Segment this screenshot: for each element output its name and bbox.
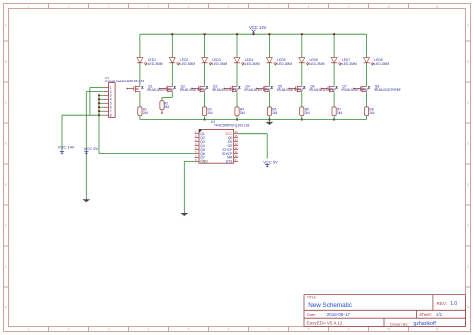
svg-text:Q5: Q5 <box>200 148 205 152</box>
svg-text:LED-3MM: LED-3MM <box>342 62 357 66</box>
svg-text:LED-3MM: LED-3MM <box>245 62 260 66</box>
svg-text:2: 2 <box>110 90 112 94</box>
svg-text:1/1: 1/1 <box>436 312 443 317</box>
svg-text:6: 6 <box>110 106 112 110</box>
svg-text:7: 7 <box>110 110 112 114</box>
svg-text:1.0: 1.0 <box>450 301 457 307</box>
svg-text:Q7S: Q7S <box>226 160 234 164</box>
svg-text:MR: MR <box>227 156 233 160</box>
svg-text:Female headerHDR1X8-2.54: Female headerHDR1X8-2.54 <box>105 79 144 83</box>
svg-text:74HC595PW-Q100,118: 74HC595PW-Q100,118 <box>214 123 250 127</box>
svg-text:2k4: 2k4 <box>164 105 169 109</box>
svg-text:Drawn By:: Drawn By: <box>390 321 408 326</box>
svg-text:VCC 5V: VCC 5V <box>263 159 278 164</box>
svg-text:Q1: Q1 <box>200 132 205 136</box>
svg-text:SH/CP: SH/CP <box>222 152 233 156</box>
svg-text:Q3: Q3 <box>200 140 205 144</box>
svg-text:2k4: 2k4 <box>272 111 277 115</box>
svg-text:LED-3MM: LED-3MM <box>180 62 195 66</box>
svg-text:LED-3MM: LED-3MM <box>374 62 389 66</box>
svg-text:IRLML0030TRPBF: IRLML0030TRPBF <box>374 88 401 92</box>
svg-text:2k4: 2k4 <box>143 111 148 115</box>
svg-text:Q4: Q4 <box>200 144 205 148</box>
svg-text:2k4: 2k4 <box>369 111 374 115</box>
svg-text:Q2: Q2 <box>200 136 205 140</box>
svg-text:LED-3MM: LED-3MM <box>310 62 325 66</box>
svg-text:DS: DS <box>228 140 233 144</box>
svg-text:1: 1 <box>110 86 112 90</box>
svg-text:LED-3MM: LED-3MM <box>212 62 227 66</box>
svg-text:8: 8 <box>110 114 112 118</box>
svg-text:TITLE:: TITLE: <box>307 296 317 300</box>
svg-text:2018-05-17: 2018-05-17 <box>327 312 351 317</box>
svg-text:LED-3MM: LED-3MM <box>277 62 292 66</box>
svg-text:2k4: 2k4 <box>305 111 310 115</box>
svg-text:VCC 14V: VCC 14V <box>58 145 75 150</box>
svg-text:Q0: Q0 <box>228 136 233 140</box>
svg-text:LED-3MM: LED-3MM <box>148 62 163 66</box>
svg-text:Q7: Q7 <box>200 156 205 160</box>
svg-text:3: 3 <box>110 94 112 98</box>
svg-text:Q6: Q6 <box>200 152 205 156</box>
svg-text:VCC: VCC <box>225 132 233 136</box>
svg-text:VCC 14V: VCC 14V <box>249 25 267 30</box>
svg-text:GND: GND <box>200 160 208 164</box>
svg-text:VCC 5V: VCC 5V <box>84 146 99 151</box>
svg-text:OE: OE <box>227 144 233 148</box>
svg-text:5: 5 <box>110 102 112 106</box>
svg-text:Sheet:: Sheet: <box>419 312 432 317</box>
svg-text:2k4: 2k4 <box>240 111 245 115</box>
svg-text:REV:: REV: <box>437 301 447 306</box>
svg-text:2k4: 2k4 <box>208 111 213 115</box>
svg-text:4: 4 <box>110 98 112 102</box>
svg-text:New Schematic: New Schematic <box>308 302 352 309</box>
svg-text:Date:: Date: <box>307 312 317 317</box>
svg-text:EasyEDA V5.4.12: EasyEDA V5.4.12 <box>307 320 343 325</box>
svg-text:gzharikoff: gzharikoff <box>413 321 436 327</box>
svg-text:2k4: 2k4 <box>337 111 342 115</box>
svg-text:ST/CP: ST/CP <box>222 148 233 152</box>
